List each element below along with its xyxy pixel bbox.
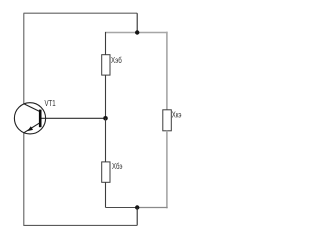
resistor Хбэ (102, 162, 110, 182)
svg-text:VT1: VT1 (45, 99, 57, 108)
transistor base bar (39, 110, 42, 128)
svg-text:Хбэ: Хбэ (112, 162, 123, 171)
wire: bottom span left segment (middle branch to node C) (106, 207, 138, 209)
node A: junction dot top (135, 30, 139, 34)
wire: right vertical upper (gray) (166, 32, 168, 111)
wire: right vertical lower (gray) (166, 131, 168, 209)
wire: bottom span right segment (node C to right branch) (137, 207, 167, 209)
node B: junction dot base/middle branch (103, 116, 108, 121)
transistor VT1 (14, 103, 45, 134)
transistor body circle (14, 103, 45, 134)
resistor Хкэ (163, 110, 172, 131)
transistor collector diagonal (24, 104, 39, 112)
resistor Хэб (102, 55, 110, 75)
wire: middle branch top stub (105, 32, 107, 55)
wire: base lead from transistor to node B (42, 117, 106, 119)
wire: middle branch bottom stub (105, 182, 107, 207)
wire: gray top span between middle and right branches (106, 32, 168, 34)
wire: bottom horizontal (emitter net) (24, 224, 137, 226)
wire: top horizontal (collector net) (24, 12, 138, 14)
node C: junction dot bottom (135, 205, 139, 209)
svg-text:Хкэ: Хкэ (172, 110, 182, 119)
wire: middle branch between node B and Хбэ (105, 118, 107, 162)
svg-text:Хэб: Хэб (111, 56, 122, 65)
wire: left vertical upper (collector to transistor) (23, 13, 25, 104)
wire: left vertical lower (emitter to bottom) (23, 133, 25, 226)
wire: drop from top wire to node A (136, 13, 138, 32)
wire: jumper from node C down to emitter net (136, 208, 138, 226)
transistor emitter diagonal (24, 123, 39, 133)
transistor emitter arrowhead (27, 126, 33, 131)
wire: middle branch between Хэб and base node (105, 75, 107, 118)
